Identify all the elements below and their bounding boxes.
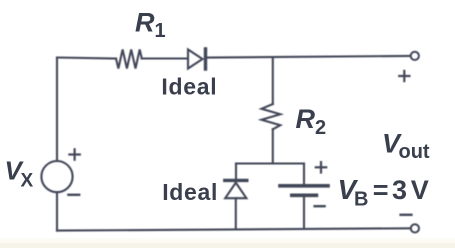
- battery VB short plate: [292, 194, 317, 198]
- svg-text:3: 3: [392, 175, 407, 205]
- terminal top-right: [411, 52, 419, 60]
- resistor R2: [262, 104, 281, 129]
- wire diode to top-right terminal: [207, 56, 411, 58]
- page edge tint bottom: [0, 243, 455, 248]
- minus sign battery: [315, 205, 325, 207]
- diode D1 triangle: [188, 50, 203, 69]
- svg-text:1: 1: [155, 20, 166, 42]
- svg-text:X: X: [21, 170, 34, 191]
- wire left vertical (top): [56, 58, 58, 162]
- minus sign source: [68, 194, 79, 196]
- svg-text:R: R: [135, 7, 155, 37]
- wire diode D2 to bottom rail: [235, 198, 237, 229]
- battery VB long plate: [280, 184, 328, 188]
- plus sign source: [69, 149, 79, 159]
- wire bottom rail: [57, 228, 411, 230]
- plus sign battery: [316, 162, 326, 172]
- wire middle rail of parallel section: [236, 162, 304, 164]
- svg-text:2: 2: [315, 117, 326, 139]
- svg-text:out: out: [399, 141, 430, 163]
- diode D2 triangle (pointing up): [225, 183, 246, 199]
- terminal bottom-right: [411, 224, 419, 232]
- wire top-left horizontal: [57, 58, 116, 59]
- plus sign at output top: [399, 71, 409, 81]
- svg-text:R: R: [296, 104, 316, 134]
- diode D2 cathode bar: [225, 179, 247, 182]
- wire battery to bottom rail: [303, 197, 305, 229]
- wire R2 to middle rail: [272, 129, 274, 163]
- svg-text:Ideal: Ideal: [161, 74, 217, 100]
- svg-text:V: V: [411, 175, 429, 205]
- wire left vertical (bottom): [56, 192, 58, 230]
- wire rail down to battery VB: [303, 164, 305, 185]
- wire R1 to diode D1: [142, 57, 188, 59]
- node junction wire R2 drop from top wire: [272, 57, 274, 104]
- diode D1 cathode bar: [204, 49, 207, 69]
- source VX circle: [41, 161, 72, 192]
- svg-text:Ideal: Ideal: [162, 179, 218, 205]
- svg-text:B: B: [354, 189, 368, 211]
- wire rail down to diode D2: [235, 164, 237, 180]
- svg-text:=: =: [373, 175, 389, 205]
- minus sign at output bottom: [401, 214, 412, 216]
- resistor R1: [116, 50, 142, 69]
